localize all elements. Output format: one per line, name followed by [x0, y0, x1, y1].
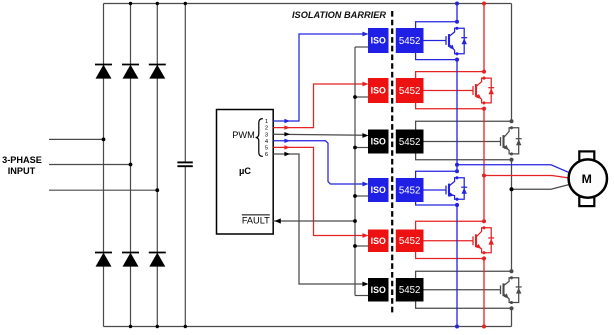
svg-text:INPUT: INPUT [8, 166, 36, 176]
node: top bus leg2 junction [129, 2, 132, 5]
node: input line 1 junction [102, 138, 106, 142]
svg-text:ISO: ISO [371, 285, 386, 295]
wire: ISO3 status stub [355, 147, 368, 149]
motor M terminals [579, 151, 594, 161]
node: bottom bus leg2 junction [129, 325, 132, 328]
motor M [569, 159, 607, 197]
svg-text:µC: µC [239, 166, 251, 176]
svg-text:3: 3 [265, 132, 268, 138]
isolator ISO1 [368, 28, 389, 53]
wire: rectifier leg 3 [156, 4, 158, 327]
node: Q2 emitter junction [482, 107, 486, 111]
svg-text:ISO: ISO [371, 137, 386, 147]
wire: driver3 low-side return [416, 154, 512, 160]
wire: phase U midpoint [456, 60, 458, 172]
wire: PWM3 to ISO3 [273, 134, 366, 135]
node: phase V top bus junction [482, 2, 486, 6]
svg-text:PWM: PWM [232, 130, 254, 140]
wire: ISO6 status stub [355, 295, 368, 297]
wire: phase W midpoint [511, 160, 513, 272]
node: Q1 collector junction [455, 20, 459, 24]
wire: phase W top feed [511, 4, 513, 122]
diode D9 (freewheel Q3) [512, 128, 519, 154]
wire: ISO4 status stub [355, 195, 368, 197]
wire: driver1 low-side return [416, 53, 457, 60]
wire: driver6 high-side supply [416, 271, 512, 278]
wire: driver2 gate drive [424, 90, 474, 92]
wire: driver3 high-side supply [416, 121, 512, 129]
node: phase V bottom bus junction [482, 325, 486, 329]
transistor Q4 (IGBT) [445, 186, 447, 195]
wire: rectifier leg 1 [103, 4, 105, 327]
node: Q2 collector junction [482, 70, 486, 74]
node: Q1 emitter/diode merge [455, 52, 458, 55]
svg-text:ISO: ISO [371, 36, 386, 46]
wire: driver6 gate drive [424, 289, 501, 291]
wire: phase U bottom return [456, 205, 458, 327]
node: status bus junction [353, 95, 357, 99]
diode D3 (upper leg 3) [149, 64, 166, 66]
wire: driver4 low-side return [416, 202, 457, 205]
wire: phase U top feed [456, 4, 458, 22]
wire: FAULT line [273, 220, 355, 222]
wire: driver2 high-side supply [416, 72, 484, 78]
wire: driver1 high-side supply [416, 22, 457, 28]
isolation barrier dashed line [391, 11, 393, 314]
node: bottom bus capacitor junction [184, 325, 187, 328]
svg-text:5452: 5452 [399, 86, 421, 97]
arrow: PWM5 mid [284, 145, 290, 149]
wire: phase V top feed [483, 4, 485, 72]
diode D5 (lower leg 2) [122, 252, 139, 254]
svg-text:1: 1 [265, 119, 268, 125]
svg-text:5452: 5452 [399, 285, 421, 296]
wire: PWM4 to ISO4 [273, 141, 366, 184]
wire: driver1 gate drive [424, 40, 447, 42]
node: Q6 emitter junction [509, 306, 513, 310]
node: Q4 collector junction [455, 169, 459, 173]
node: phase U motor tap [455, 163, 459, 167]
svg-text:3-PHASE: 3-PHASE [2, 155, 42, 165]
diode D10 (freewheel Q4) [457, 178, 464, 199]
wire: driver5 low-side return [416, 252, 484, 259]
wire: phase V bottom return [483, 259, 485, 327]
wire: ISO5 status stub [355, 245, 368, 247]
gate driver U6 5452 [396, 230, 424, 253]
svg-text:ISO: ISO [371, 86, 386, 96]
svg-text:ISO: ISO [371, 236, 386, 246]
node: Q3 collector junction [510, 119, 514, 123]
arrow: PWM3 mid [284, 132, 290, 136]
svg-text:6: 6 [265, 152, 268, 158]
node: Q4 emitter/diode merge [455, 198, 458, 201]
svg-text:5452: 5452 [399, 36, 421, 47]
wire: phase V midpoint [483, 109, 485, 222]
node: Q2 emitter/diode merge [482, 101, 485, 104]
wire: DC- bottom bus [104, 326, 512, 328]
node: Q6 emitter/diode merge [510, 301, 513, 304]
diode D6 (lower leg 3) [149, 252, 166, 254]
node: Q4 collector/diode split [455, 176, 458, 179]
wire: rectifier leg 2 [130, 4, 132, 327]
svg-text:5452: 5452 [399, 185, 421, 196]
diode D7 (freewheel Q1) [457, 28, 464, 54]
diode D11 (freewheel Q5) [484, 228, 491, 253]
wire: ISO2 status stub [355, 96, 368, 98]
transistor Q3 (IGBT) [500, 137, 502, 146]
wire: driver4 gate drive [424, 189, 447, 191]
isolator ISO3 [368, 130, 389, 154]
node: top bus leg3 junction [156, 2, 159, 5]
node: top bus capacitor junction [184, 2, 187, 5]
arrow: PWM6 into ISO6 [362, 282, 368, 287]
gate driver U3 5452 [396, 78, 424, 103]
node: status bus junction [353, 146, 357, 150]
transistor Q2 (IGBT) [472, 86, 474, 95]
pin group brace [256, 119, 263, 157]
capacitor C1 [177, 161, 192, 163]
wire: DC+ top bus [104, 3, 512, 5]
diode D12 (freewheel Q6) [512, 278, 519, 303]
arrow: PWM2 into ISO2 [362, 82, 368, 87]
isolator ISO6 [368, 278, 389, 302]
isolator ISO2 [368, 78, 389, 103]
node: Q3 emitter/diode merge [510, 152, 513, 155]
arrow: PWM1 into ISO1 [362, 32, 368, 37]
node: input line 2 junction [129, 163, 133, 167]
wire: driver3 gate drive [424, 141, 501, 143]
wire: phase input line 3 [49, 189, 157, 191]
node: Q6 collector/diode split [510, 276, 513, 279]
diode D4 (lower leg 1) [95, 252, 112, 254]
node: input line 3 junction [155, 188, 159, 192]
svg-text:5452: 5452 [399, 137, 421, 148]
node: status bus junction [353, 219, 357, 223]
node: Q6 collector junction [510, 269, 514, 273]
svg-text:M: M [582, 172, 592, 186]
wire: driver2 low-side return [416, 103, 484, 109]
wire: driver5 gate drive [424, 240, 474, 242]
node: status bus junction [353, 194, 357, 198]
diode D2 (upper leg 2) [122, 64, 139, 66]
node: Q5 collector/diode split [482, 226, 485, 229]
wire: ISO1 status stub [355, 46, 368, 48]
node: phase U top bus junction [455, 2, 459, 6]
transistor Q5 (IGBT) [472, 236, 474, 245]
wire: PWM5 to ISO5 [273, 147, 366, 235]
arrow: FAULT into uC [275, 218, 281, 223]
svg-text:ISOLATION BARRIER: ISOLATION BARRIER [292, 9, 386, 20]
wire: isolator status bus vertical [354, 47, 356, 296]
node: Q2 collector/diode split [482, 77, 485, 80]
wire: PWM2 to ISO2 [273, 84, 366, 128]
isolator ISO5 [368, 230, 389, 253]
node: status bus junction [353, 244, 357, 248]
wire: motor lead U [457, 165, 569, 173]
node: phase V motor tap [482, 174, 486, 178]
wire: phase input line 2 [49, 164, 131, 166]
wire: motor lead W [512, 185, 569, 190]
node: Q5 emitter/diode merge [482, 251, 485, 254]
node: Q1 emitter junction [455, 58, 459, 62]
isolator ISO4 [368, 178, 389, 202]
wire: phase W bottom return [511, 308, 513, 326]
node: Q4 emitter junction [455, 203, 459, 207]
arrow: PWM2 mid [284, 125, 290, 129]
node: Q1 collector/diode split [455, 27, 458, 30]
arrow: PWM4 mid [284, 139, 290, 143]
wire: PWM1 to ISO1 [273, 34, 366, 121]
wire: DC bus capacitor branch lower [184, 167, 186, 327]
wire: DC bus capacitor branch upper [184, 4, 186, 163]
gate driver U2 5452 [396, 28, 424, 53]
wire: driver4 high-side supply [416, 171, 457, 178]
wire: motor lead V [484, 176, 568, 178]
svg-text:2: 2 [265, 126, 268, 132]
arrow: PWM4 into ISO4 [362, 182, 368, 187]
svg-text:FAULT: FAULT [242, 216, 270, 226]
gate driver U7 5452 [396, 278, 424, 302]
arrow: PWM6 mid [284, 152, 290, 156]
svg-text:5452: 5452 [399, 236, 421, 247]
microcontroller U1 [217, 110, 274, 235]
arrow: PWM5 into ISO5 [362, 233, 368, 238]
node: phase W motor tap [510, 187, 514, 191]
wire: phase input line 1 [49, 138, 104, 140]
wire: PWM6 to ISO6 [273, 154, 366, 284]
node: Q5 collector junction [482, 219, 486, 223]
wire: driver5 high-side supply [416, 221, 484, 229]
node: phase U bottom bus junction [455, 325, 459, 329]
node: Q3 emitter junction [509, 158, 513, 162]
arrow: PWM1 mid [284, 119, 290, 123]
diode D8 (freewheel Q2) [484, 78, 491, 103]
svg-text:ISO: ISO [371, 185, 386, 195]
diode D1 (upper leg 1) [95, 64, 112, 66]
node: Q3 collector/diode split [510, 126, 513, 129]
arrow: PWM3 into ISO3 [362, 133, 368, 138]
svg-text:5: 5 [265, 146, 268, 152]
wire: driver6 low-side return [416, 302, 512, 309]
gate driver U4 5452 [396, 130, 424, 154]
transistor Q1 (IGBT) [445, 36, 447, 45]
node: Q5 emitter junction [482, 256, 486, 260]
transistor Q6 (IGBT) [500, 285, 502, 294]
gate driver U5 5452 [396, 178, 424, 202]
node: bottom bus leg3 junction [156, 325, 159, 328]
